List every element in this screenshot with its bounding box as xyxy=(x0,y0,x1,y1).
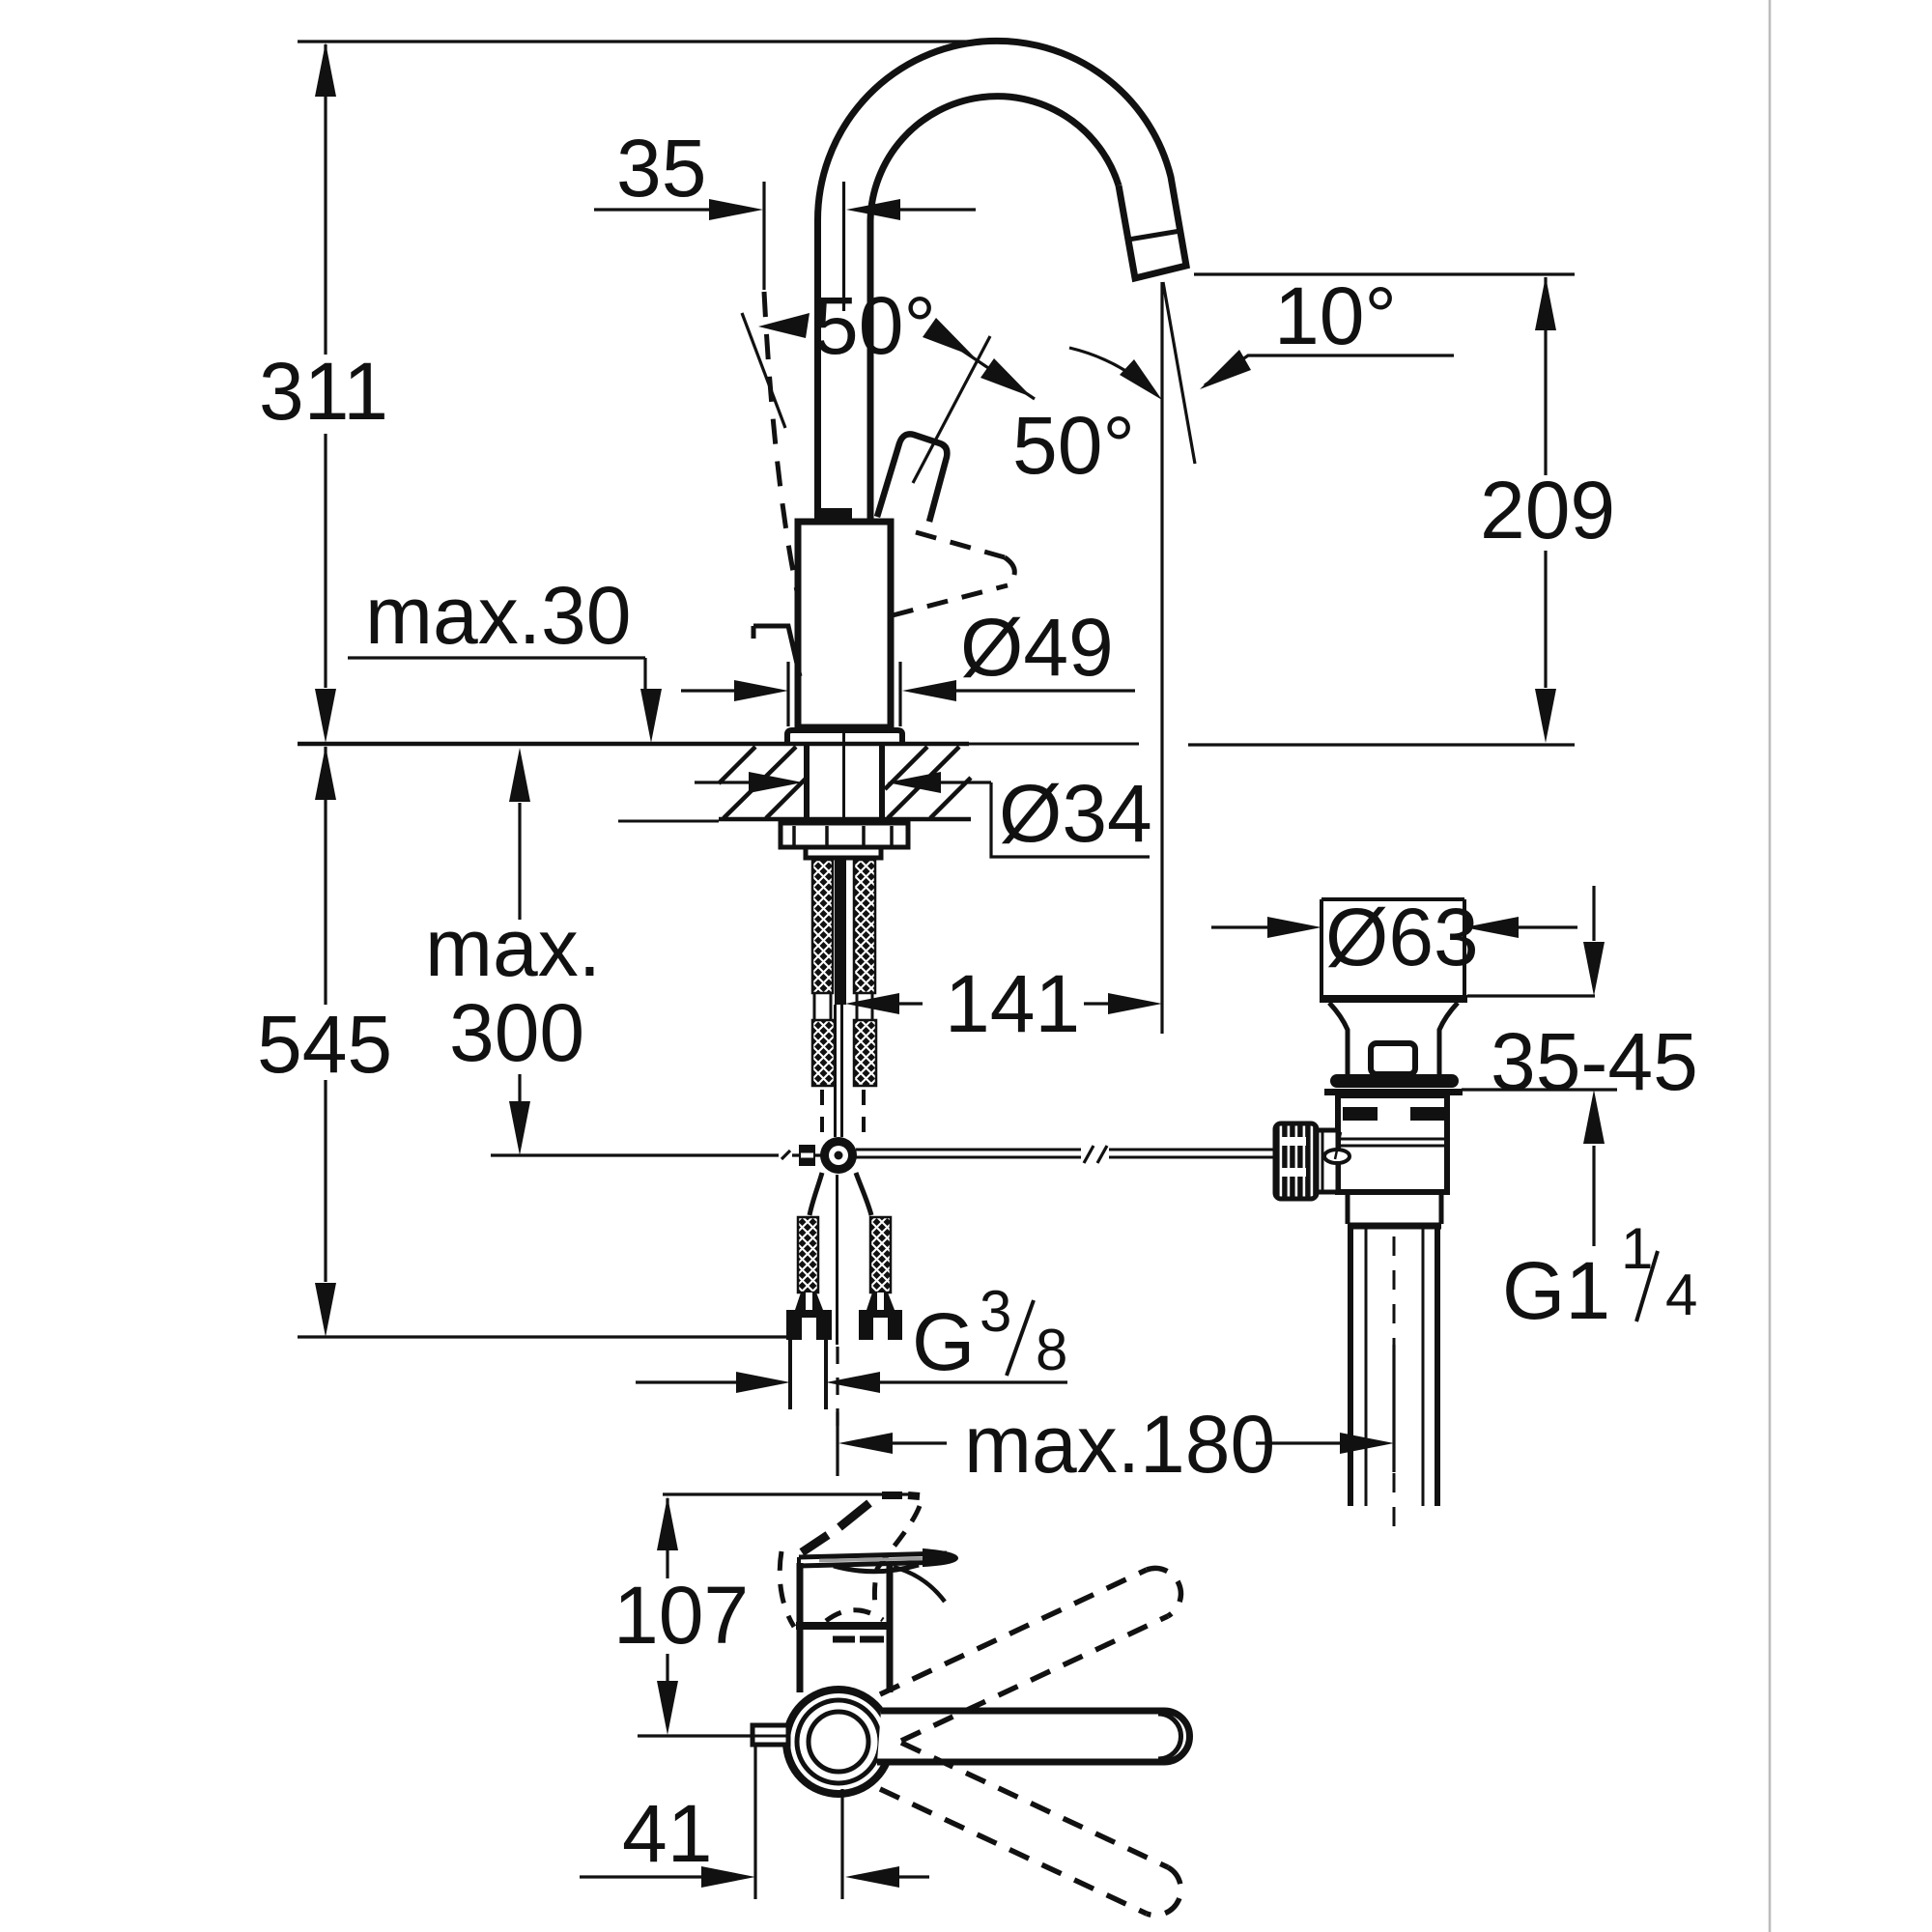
bottom reference line (hose ends) xyxy=(298,1335,828,1338)
50 deg cross arrow upper xyxy=(923,318,974,356)
plan body middle circle xyxy=(797,1700,880,1783)
dimension 545 line mid segment xyxy=(324,802,327,1005)
dia63 arrow left xyxy=(1267,917,1321,938)
drain flange lip xyxy=(1324,1089,1463,1095)
dashed swivelled handle lower edge xyxy=(893,585,1008,615)
dashed swivelled handle upper edge xyxy=(916,532,1005,557)
plan dashed handle up edge2 xyxy=(901,1616,1168,1741)
max.180 line left xyxy=(892,1441,947,1444)
shank through counter right xyxy=(879,746,885,821)
max.180 arrow left xyxy=(838,1433,893,1454)
drain knurled nut xyxy=(1275,1123,1317,1199)
dimension 209 line lower xyxy=(1544,551,1547,688)
locknut washer xyxy=(781,823,908,847)
drain tee stub xyxy=(1317,1130,1338,1192)
plan body side right xyxy=(887,1563,894,1692)
locknut ticks xyxy=(792,826,796,845)
hose end neck left xyxy=(795,1293,823,1310)
cartridge cap (black) xyxy=(819,508,852,522)
50 deg cross line steep xyxy=(913,336,990,483)
dia49 arrow right xyxy=(902,680,956,701)
dia34 leader corner xyxy=(991,782,1150,857)
dia34 line right xyxy=(939,781,991,783)
dimension 141 line right xyxy=(1084,1002,1109,1005)
counter bottom line thick xyxy=(719,817,971,822)
dimension 35 line left xyxy=(594,208,711,211)
max.180 extension left xyxy=(836,1412,838,1476)
pop-up horizontal rod left part xyxy=(856,1149,1081,1151)
dimension 209 line mid xyxy=(1544,331,1547,475)
drain plug side left / dia63 extension xyxy=(1320,899,1323,996)
svg-text:311: 311 xyxy=(259,346,388,437)
dimension 107 upper segment xyxy=(666,1498,668,1578)
dashed swivelled spout outline xyxy=(764,292,797,591)
svg-text:Ø34: Ø34 xyxy=(999,768,1152,859)
page edge gray rule xyxy=(1769,0,1772,1932)
svg-text:141: 141 xyxy=(945,958,1080,1049)
dimension 107 arrow down xyxy=(657,1681,678,1735)
counter hatching right xyxy=(885,747,927,789)
plan label marks xyxy=(833,1636,855,1643)
50 deg swivel arc arrow xyxy=(1120,359,1162,400)
spout mousseur band line xyxy=(1128,231,1180,240)
plan dashed handle down edge2 xyxy=(880,1789,1147,1914)
dimension 209 line upper xyxy=(1544,277,1547,331)
plan dashed handle up edge1 xyxy=(880,1570,1147,1694)
svg-text:545: 545 xyxy=(257,999,392,1090)
faucet axis dashed centerline xyxy=(836,1347,838,1432)
plan body inner circle xyxy=(809,1712,868,1772)
drain plug top line xyxy=(1321,897,1464,901)
50 deg cross arrow lower xyxy=(980,358,1032,397)
locknut lower ring xyxy=(806,847,881,858)
drain plug underside left xyxy=(1329,1003,1348,1074)
max.300 upper stem xyxy=(518,803,521,920)
plan dome dashed arc xyxy=(826,1610,883,1621)
drain pivot ball end xyxy=(1324,1150,1350,1163)
plan bottom reference line xyxy=(638,1734,788,1737)
dimension 35 arrow right xyxy=(709,199,763,220)
hose end neck right xyxy=(867,1293,895,1310)
plan handle bar xyxy=(877,1711,1190,1762)
counter top line thick xyxy=(298,742,969,747)
dimension 141 arrow right xyxy=(1108,993,1162,1014)
ball joint xyxy=(820,1137,857,1174)
dimension 107 arrow up xyxy=(657,1496,678,1550)
svg-text:4: 4 xyxy=(1665,1263,1697,1327)
max.30 arrow down xyxy=(640,689,662,743)
spout outer contour xyxy=(817,41,1186,524)
G3/8 tail left line xyxy=(788,1340,792,1409)
35-45 arrow down xyxy=(1583,942,1605,996)
35-45 vertical upper xyxy=(1592,886,1595,941)
dia34 arrow right xyxy=(887,772,941,793)
dia63 line left xyxy=(1211,925,1267,928)
plan dashed handle up cap xyxy=(1147,1568,1180,1616)
dimension 41 arrow right-pointing xyxy=(701,1866,755,1888)
hose end braid right xyxy=(870,1217,891,1293)
pop-up rod lower double line xyxy=(834,1005,837,1137)
max.180 extension right xyxy=(1392,1345,1395,1472)
209 top reference line xyxy=(1194,272,1575,275)
dimension 41 line right xyxy=(898,1875,929,1878)
svg-text:G: G xyxy=(912,1296,975,1387)
dimension 107 lower segment xyxy=(666,1654,668,1681)
svg-text:107: 107 xyxy=(613,1570,749,1661)
35-45 vertical lower xyxy=(1592,1146,1595,1246)
dimension 545 line upper segment xyxy=(324,747,327,802)
hose end braid left xyxy=(798,1217,818,1293)
drain tailpipe outer xyxy=(1348,1229,1353,1506)
dimension 545 arrow up xyxy=(315,746,336,800)
spout inner contour xyxy=(870,97,1119,524)
pop-up rod lower center line xyxy=(836,1175,838,1345)
50 deg left arc arrow xyxy=(758,313,810,338)
svg-text:3: 3 xyxy=(980,1279,1011,1344)
drain body xyxy=(1338,1095,1447,1192)
dia34 line left xyxy=(695,781,752,783)
plan lever underside curve xyxy=(834,1565,919,1572)
dimension 311 arrow down xyxy=(315,689,336,743)
svg-text:41: 41 xyxy=(622,1788,712,1879)
dimension 209 arrow up xyxy=(1535,276,1556,330)
dimension 311 line lower segment xyxy=(324,434,327,688)
pop-up rod hook xyxy=(753,626,800,676)
plan left dashed arc xyxy=(780,1551,794,1627)
max.30 leader underline xyxy=(348,656,645,659)
plan lever plate bottom line xyxy=(799,1562,947,1566)
pop-up rod upper (black) xyxy=(835,858,846,1005)
drain thread shoulder xyxy=(1348,1223,1441,1230)
label G1 1/4 slash xyxy=(1636,1251,1658,1321)
svg-text:300: 300 xyxy=(449,987,584,1078)
plan dashed handle down edge1 xyxy=(901,1743,1168,1867)
plan spout tip thick segments xyxy=(882,1492,902,1499)
plan lever tip blob xyxy=(923,1549,957,1566)
plan lever plate gray fill line xyxy=(819,1559,923,1561)
dimension 311 line upper segment xyxy=(324,44,327,355)
50 deg left angle line xyxy=(742,313,785,428)
G3/8 tail right line xyxy=(824,1340,828,1409)
plan pop-up tab xyxy=(753,1725,788,1745)
drain plug rim xyxy=(1320,995,1467,1003)
hose curve right xyxy=(856,1173,871,1215)
dia63 line right xyxy=(1518,925,1577,928)
dia63 arrow right xyxy=(1464,917,1519,938)
svg-text:G1: G1 xyxy=(1502,1245,1610,1336)
plan lever right curve xyxy=(894,1567,945,1602)
plan top extension line xyxy=(663,1492,919,1495)
top reference line (spout apex) xyxy=(298,40,1000,43)
supply hose upper left xyxy=(812,860,833,993)
G3/8 arrow right xyxy=(826,1372,880,1393)
drain tee inner diagonal xyxy=(1335,1132,1341,1159)
dimension 141 arrow left xyxy=(845,993,899,1014)
svg-text:50°: 50° xyxy=(813,280,936,371)
10 deg leader arrow xyxy=(1200,350,1251,389)
drain plug knob xyxy=(1371,1043,1415,1074)
pop-up horizontal rod right part xyxy=(1109,1149,1276,1151)
dia34 arrow left xyxy=(749,772,803,793)
50 deg swivel arc xyxy=(1069,348,1156,394)
dimension 311 arrow up xyxy=(315,43,336,97)
svg-text:35: 35 xyxy=(616,123,706,213)
G3/8 dimension right line xyxy=(879,1380,1067,1383)
dia49 extension right xyxy=(898,662,901,726)
supply hose upper right xyxy=(854,860,875,993)
svg-text:209: 209 xyxy=(1480,465,1615,555)
max.180 line right xyxy=(1256,1441,1341,1444)
plan lever plate left end xyxy=(797,1557,801,1566)
209 bottom reference line xyxy=(1188,743,1575,746)
drain plug underside right xyxy=(1439,1003,1458,1074)
svg-text:max.: max. xyxy=(425,902,601,993)
10 deg leader xyxy=(1205,355,1454,385)
35-45 upper extension line xyxy=(1467,994,1595,997)
dimension 41 arrow left-pointing xyxy=(845,1866,899,1888)
plan body waist line xyxy=(796,1622,893,1630)
G3/8 dimension left line xyxy=(636,1380,736,1383)
label G3/8 slash xyxy=(1007,1300,1034,1376)
plan body side left xyxy=(797,1563,804,1692)
plan body outer circle xyxy=(786,1690,891,1794)
max.300 arrow stem xyxy=(518,1074,521,1102)
dimension 545 arrow down xyxy=(315,1283,336,1337)
rod break marks xyxy=(1084,1146,1094,1163)
dimension 141 line left xyxy=(898,1002,923,1005)
svg-text:35-45: 35-45 xyxy=(1491,1016,1698,1107)
lever handle (solid) xyxy=(877,434,947,522)
dimension 41 extension right xyxy=(840,1789,843,1899)
counter bottom line thin xyxy=(618,820,719,823)
dia49 extension left xyxy=(786,662,789,726)
counter top line thin xyxy=(969,743,1139,746)
dia49 line right xyxy=(955,689,1135,692)
dia49 arrow left xyxy=(734,680,788,701)
svg-text:10°: 10° xyxy=(1274,270,1397,361)
drain step section xyxy=(1346,1192,1350,1224)
plan lever plate top line xyxy=(799,1553,947,1557)
dimension 41 line left xyxy=(580,1875,702,1878)
hose dashed continuation left xyxy=(820,1090,824,1140)
hose dashed continuation right xyxy=(862,1090,866,1140)
svg-text:Ø63: Ø63 xyxy=(1325,892,1479,982)
dimension 545 line lower segment xyxy=(324,1080,327,1282)
svg-text:50°: 50° xyxy=(1012,400,1135,491)
max.30 leader drop xyxy=(643,658,646,690)
drain body slot left xyxy=(1343,1107,1378,1121)
svg-text:max.30: max.30 xyxy=(365,570,631,661)
svg-text:8: 8 xyxy=(1036,1318,1067,1382)
dimension 35 arrow left xyxy=(846,199,900,220)
plan spout back edge thick xyxy=(802,1535,828,1552)
dia49 line left xyxy=(681,689,735,692)
50 deg cross line shallow xyxy=(929,328,1035,399)
max.300 arrow down xyxy=(509,1101,530,1155)
supply hose lower right xyxy=(854,1020,876,1086)
drain tailpipe centerline dashed xyxy=(1393,1236,1396,1526)
dimension 35 line right xyxy=(898,208,976,211)
hose end cap left xyxy=(786,1310,832,1340)
hose stub lines xyxy=(813,993,816,1020)
dashed swivelled handle end cap xyxy=(1005,557,1014,585)
max.300 line break tick xyxy=(781,1151,790,1159)
hose curve left xyxy=(810,1173,822,1215)
outlet extension line vertical xyxy=(1160,282,1163,1034)
plan handle cap inner arc xyxy=(1158,1714,1181,1759)
svg-text:Ø49: Ø49 xyxy=(960,602,1114,693)
supply hose lower left xyxy=(812,1020,835,1086)
faucet body xyxy=(798,522,891,727)
drain body groove lines xyxy=(1338,1138,1447,1141)
35-45 lower extension line xyxy=(1462,1088,1617,1091)
dimension 41 extension left xyxy=(753,1745,756,1899)
drain plug side right / dia63 extension xyxy=(1463,899,1466,996)
plan spout dashed silhouette xyxy=(874,1506,920,1605)
dimension 209 arrow down xyxy=(1535,689,1556,743)
outlet 10 deg tilted line xyxy=(1163,282,1195,464)
35 extension line left xyxy=(762,182,765,290)
svg-text:max.180: max.180 xyxy=(964,1399,1275,1490)
G3/8 arrow left xyxy=(736,1372,790,1393)
rod clamp xyxy=(799,1145,815,1166)
max.300 reference line xyxy=(491,1153,779,1156)
base flange xyxy=(787,730,902,744)
max.300 upper arrow (up at counter) xyxy=(509,748,530,802)
shank through counter left xyxy=(804,746,810,821)
svg-text:1: 1 xyxy=(1621,1216,1653,1281)
max.180 arrow right xyxy=(1340,1433,1394,1454)
drain tailpipe thread root xyxy=(1365,1229,1368,1506)
drain body slot right xyxy=(1410,1107,1445,1121)
faucet axis line through shank xyxy=(842,731,845,858)
35 extension line right (faucet axis) xyxy=(842,182,845,311)
counter hatching left xyxy=(719,747,755,783)
35-45 arrow up xyxy=(1583,1090,1605,1144)
drain flange bar xyxy=(1330,1074,1459,1088)
plan dashed handle down cap xyxy=(1147,1867,1180,1916)
hose end cap right xyxy=(859,1310,902,1340)
